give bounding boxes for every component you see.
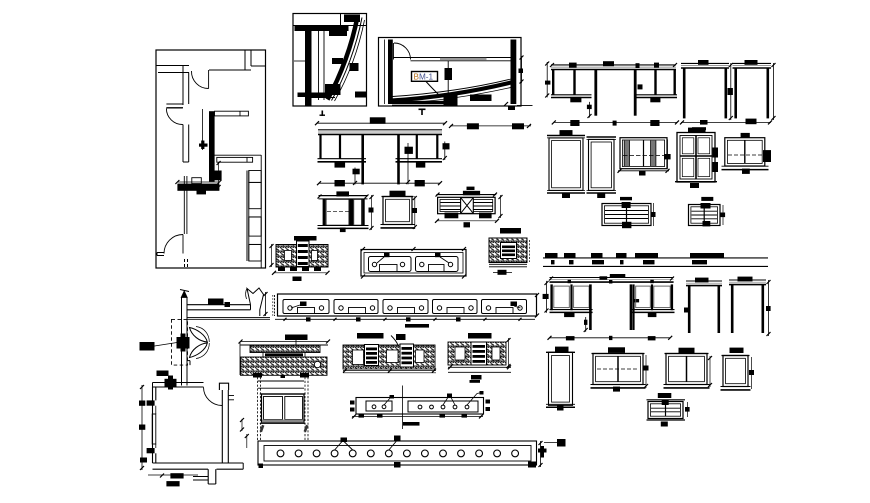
detail C tick label T	[419, 109, 426, 111]
floor plan 2 bottom tee pipe	[207, 469, 209, 484]
hatched unit J bottom dim	[489, 263, 527, 265]
detail C door arc	[394, 43, 411, 60]
hatched unit J side ticks	[529, 240, 531, 262]
floor plan 1 top-right wall notch	[244, 50, 246, 70]
elevation D top rail	[318, 129, 442, 131]
shelf unit G bottom dim	[437, 220, 497, 222]
elevation M open middle post	[630, 284, 633, 330]
hatched counter plan H white cutouts	[285, 251, 292, 261]
frame H3 right dim	[667, 140, 669, 169]
floor plan 1 top-left room wall	[156, 65, 189, 67]
strip Q outer	[356, 398, 484, 415]
floor plan 1 right cabinet column	[246, 171, 248, 262]
window P4 right dim	[751, 357, 753, 389]
strip R top italic labels	[260, 425, 265, 432]
frame E right dim	[371, 195, 373, 230]
shelf unit R5 right dim	[687, 402, 689, 417]
elevation E cabinet B left post	[634, 70, 637, 116]
floor plan 1 door arc left	[166, 109, 182, 125]
table elevation N2	[729, 279, 766, 281]
hatched counter plan H bottom blob	[293, 277, 302, 282]
elevation E cabinet A shelf	[551, 94, 592, 96]
floor plan 2 right wall ticks	[229, 395, 234, 397]
detail C ceiling lines	[393, 57, 516, 59]
sink plan I left basin	[369, 257, 412, 272]
frame H2 tall narrow	[587, 136, 617, 138]
detail C bottom right black bar	[470, 95, 492, 102]
shelf unit G	[463, 191, 480, 196]
floor plan 2 wall stub below door	[188, 360, 191, 362]
detail C right dim line	[521, 56, 523, 83]
detail C BM-1 label box	[412, 72, 438, 82]
section L1 left dim	[239, 342, 241, 375]
hatched unit J body	[489, 238, 527, 263]
detail B curved wall thick	[328, 17, 358, 100]
floor plan 2 room top wall	[153, 382, 204, 384]
svg-text:BM-1: BM-1	[414, 73, 434, 82]
floor plan 2 label 640	[157, 371, 169, 377]
section L3 body	[448, 342, 506, 365]
wall line W upper blobs	[545, 253, 558, 258]
elevation E cabinet B shelf	[635, 94, 677, 96]
window P3 right dim	[709, 356, 711, 387]
floor plan 2 room left wall	[152, 387, 154, 463]
elevation E cabinet A divider	[573, 70, 575, 95]
elevation E bottom dimension line	[554, 121, 677, 123]
floor plan 1 shelf band top	[215, 111, 249, 116]
floor plan 1 wall stub bottom-left	[157, 252, 164, 254]
strip Q centerline	[402, 386, 404, 430]
elevation E left dim	[546, 62, 548, 97]
hatched counter plan H left dim	[271, 244, 273, 267]
elevation D cabinet B right post	[436, 134, 438, 158]
counter strip K right end ticks	[535, 293, 539, 297]
table G bottom blob	[746, 119, 757, 125]
stray dash below D	[467, 187, 475, 190]
table G right dim	[773, 63, 775, 120]
floor plan 2 room right wall	[221, 390, 223, 463]
table elevation N1	[686, 280, 722, 282]
strip R right-bottom blob	[528, 462, 536, 468]
window detail hatch columns	[257, 377, 259, 441]
floor plan 1 cabinet edge line	[183, 176, 185, 234]
floor plan 2 left wall window	[152, 414, 156, 444]
strip R circles	[277, 450, 284, 457]
sink plan I right faucet	[435, 253, 441, 257]
detail C bottom line extension	[517, 105, 533, 107]
section L1 white band with bar	[263, 353, 305, 358]
floor plan 1 corner black block	[211, 171, 222, 181]
counter strip K left hatch end	[274, 295, 276, 316]
detail C right heavy wall	[511, 40, 517, 105]
floor plan 1 left wall lower	[182, 125, 184, 163]
elevation E rail blobs	[569, 63, 577, 68]
section L3 top black bar	[468, 333, 492, 339]
floor plan 1 door arc top	[191, 71, 208, 89]
elevation M bottom dim	[550, 337, 671, 339]
detail B blob right-edge	[355, 92, 367, 98]
table elevation G	[733, 62, 772, 64]
elevation D cabinet A right post	[361, 134, 364, 184]
hatched counter plan H bottom dim	[274, 272, 328, 274]
hatched unit J center box	[501, 243, 517, 259]
elevation E top rail	[551, 64, 676, 66]
floor plan 2 bottom dim	[170, 473, 183, 478]
table F right dim	[730, 63, 732, 120]
section L3 boxes	[455, 347, 465, 360]
elevation D top dimension line	[317, 122, 445, 124]
elevation E cabinet B divider	[654, 70, 656, 95]
table N2 right dim	[768, 280, 770, 336]
elevation M left dim	[546, 281, 548, 313]
floor plan 1 cross symbol	[201, 141, 204, 150]
shelf unit R right dim	[722, 205, 724, 225]
detail B inner vertical lines	[318, 31, 320, 100]
strip Q left box	[366, 401, 392, 411]
section L2 body	[343, 345, 435, 369]
detail C bottom black cluster	[444, 95, 458, 107]
floor plan 2 counter top lines	[188, 304, 251, 306]
detail B vertical black wall	[305, 30, 312, 106]
frame F single-pane	[390, 191, 406, 196]
section L3 bottom dims	[448, 366, 511, 368]
detail C curved floor thick	[393, 83, 512, 101]
counter strip K compartments	[283, 300, 329, 314]
hatched counter plan H center column	[297, 241, 310, 267]
sink plan I right basin	[416, 257, 459, 272]
floor plan 1 left wall stub	[166, 103, 183, 105]
elevation M top rail	[550, 277, 674, 279]
strip R bottom-left black sq	[259, 464, 264, 469]
counter strip K bottom black bar	[405, 324, 429, 328]
table elevation F	[681, 62, 729, 64]
strip R bottom tick	[394, 462, 401, 468]
hatched counter plan H body	[276, 245, 328, 268]
detail B blob mid	[332, 58, 343, 64]
section L3 right dim	[508, 338, 510, 368]
window P2 right dim	[645, 355, 647, 388]
frame H5 window with shelves	[741, 133, 750, 138]
floor plan 1 top wall inner line	[209, 69, 251, 71]
shelf unit R5 bottom blob	[661, 422, 668, 427]
window P3	[679, 348, 695, 353]
detail C center black block	[445, 68, 453, 80]
strip Q bottom black bar	[403, 422, 420, 426]
strip R outer	[258, 441, 537, 465]
floor plan 1 counter black square	[197, 188, 207, 194]
tall frame P1	[555, 347, 569, 352]
shelf unit G bottom blobs	[445, 213, 459, 219]
floor plan 1 threshold dashed lines	[184, 259, 186, 268]
floor plan 2 wall break squiggle	[247, 288, 264, 316]
row1 bottom dim extension	[681, 121, 771, 123]
floor plan 1 shelf band 2	[217, 157, 253, 162]
sink plan I dim ticks	[361, 247, 365, 251]
section L1 upper hatched band	[250, 345, 320, 353]
frame H3 sliding cabinet	[620, 138, 667, 169]
shelf unit R5 top blob	[658, 393, 672, 398]
detail B blob lower cluster	[325, 84, 341, 95]
floor plan 2 left dim line	[141, 385, 143, 470]
elevation M post black tick	[633, 299, 639, 302]
floor plan 2 valve 1	[177, 337, 190, 349]
detail B top black bar	[295, 26, 349, 31]
strip R right dim marks	[540, 441, 542, 467]
elevation D cabinet A divider	[339, 134, 341, 158]
frame H1 tall narrow	[547, 135, 585, 137]
elevation E cabinet B right post	[674, 70, 676, 95]
elevation M cabinet B	[632, 284, 634, 330]
detail B bottom black bar	[298, 93, 332, 98]
floor plan 2 door lens lower	[190, 343, 208, 358]
elevation D dim small left	[354, 168, 356, 185]
elevation M dim mid	[585, 317, 587, 332]
detail B curved wall thin lines	[332, 18, 363, 101]
floor plan 2 lower line	[188, 317, 271, 319]
elevation M cabinet B label blob	[648, 312, 657, 317]
floor plan 2 label 1405	[140, 342, 155, 351]
elevation E dim small	[589, 102, 591, 118]
elevation D cabinet B shelf	[396, 158, 443, 160]
floor plan 2 label 1400	[208, 299, 224, 305]
elevation D cabinet B left post	[397, 134, 400, 184]
elevation D bottom dimension line	[319, 182, 440, 184]
floor plan 2 door arcs thin	[196, 327, 209, 343]
strip Q leaders	[384, 398, 391, 406]
floor plan 2 riser pipe	[181, 298, 183, 386]
hatched unit J bottom blob	[498, 270, 507, 275]
floor plan 2 shaft dashed box	[172, 319, 188, 365]
shelf unit L	[620, 197, 632, 200]
window detail sill gray	[262, 420, 304, 423]
counter strip K bottom dim	[275, 318, 535, 320]
detail C center post line	[447, 61, 449, 95]
detail C hatched band	[440, 58, 487, 61]
detail C lower dimension line	[450, 125, 531, 127]
wall section line W	[543, 257, 768, 259]
detail B tick label 1	[322, 111, 324, 117]
section L1 top dim line	[241, 341, 329, 343]
frame F right dim	[414, 196, 416, 229]
shelf unit R	[701, 197, 713, 201]
elevation M cabinet A	[550, 284, 552, 310]
elevation D cabinet A label blob	[335, 161, 346, 167]
shelf unit G center X box	[461, 198, 474, 214]
section L2 top black bar	[357, 333, 384, 339]
floor plan 1 counter black bar	[177, 184, 219, 191]
elevation D dim right	[444, 142, 446, 161]
strip Q end diamonds	[350, 401, 355, 405]
floor plan 1 center line	[202, 109, 204, 150]
counter strip K faucet right	[511, 302, 518, 307]
section L1 circle in hatch	[314, 361, 320, 367]
window detail frame	[260, 393, 306, 395]
section L2 bottom dim	[343, 370, 436, 372]
frame E left two-pane	[336, 191, 349, 196]
detail C outer box	[379, 38, 522, 107]
table N1 left tick	[684, 308, 689, 313]
detail B mid leader line	[294, 60, 306, 62]
detail C bottom-right diamond	[508, 106, 515, 111]
wall line W lower blobs	[551, 260, 555, 264]
frame E bottom blob	[340, 228, 346, 233]
floor plan 2 door arc	[204, 387, 223, 405]
detail C label leader	[426, 82, 439, 95]
elevation D cabinet A left post	[319, 134, 321, 158]
counter strip K left dim	[265, 292, 267, 316]
hatched counter plan H top bar	[294, 236, 317, 241]
elevation D cabinet B label blob	[416, 161, 425, 167]
counter strip K outer	[278, 294, 537, 316]
window detail top lines	[258, 380, 304, 382]
detail C curved floor thin lines	[393, 79, 512, 97]
section L3 bottom blob	[471, 375, 482, 380]
elevation E post black mark	[638, 84, 643, 89]
elevation M rail blobs	[600, 276, 608, 279]
floor plan 2 door lens upper	[190, 328, 208, 343]
floor plan 1 counter white box	[192, 178, 202, 184]
window P2	[608, 347, 625, 353]
floor plan 1 inner right border line	[260, 155, 262, 268]
elevation D cabinet B divider	[416, 134, 418, 158]
floor plan 2 room bottom wall	[153, 462, 244, 464]
counter strip K faucet left	[300, 302, 307, 307]
floor plan 1 counter dim marks	[177, 181, 219, 183]
floor plan 2 right small dim	[241, 419, 243, 431]
strip Q right box	[408, 401, 478, 412]
shelf unit L right dim	[653, 203, 655, 226]
window P4	[730, 348, 744, 353]
elevation E cabinet A label blob	[570, 97, 581, 102]
section L1 bottom blobs	[253, 373, 262, 378]
section L1 lower hatched block	[241, 357, 328, 375]
sink plan I left faucet	[384, 253, 390, 257]
elevation E cabinet A left post	[552, 70, 554, 95]
detail B top-right sub-rect	[340, 14, 342, 26]
floor plan 2 valve 2	[165, 379, 177, 387]
floor plan 2 vertical dim far	[246, 434, 248, 448]
section L2 leader curve	[391, 336, 398, 346]
floor plan 2 pipe arrow	[181, 291, 187, 298]
section L2 white boxes and slat boxes	[353, 350, 364, 365]
shelf unit R5	[647, 399, 686, 401]
detail B blob mid-right	[350, 63, 359, 71]
floor plan 1 border	[156, 50, 266, 268]
hatched counter plan H bottom blobs	[278, 267, 285, 272]
elevation D cabinet A shelf	[318, 158, 367, 160]
floor plan 1 door arc bottom-left	[164, 235, 183, 254]
elevation D dim mid	[407, 143, 409, 184]
detail C left heavy wall	[388, 40, 393, 105]
table F bottom blob	[700, 120, 708, 125]
floor plan 2 right wall top cap	[219, 383, 228, 390]
detail B blob top-right	[344, 15, 360, 23]
detail B blob upper	[329, 30, 347, 37]
strip R leaders	[335, 442, 342, 451]
elevation E cabinet A right post	[594, 70, 597, 116]
hatched unit J top blob	[500, 228, 521, 234]
strip Q bottom dim	[352, 415, 483, 417]
detail B outer box	[293, 14, 367, 107]
elevation E cabinet B label blob	[650, 97, 660, 102]
blob above Q right	[470, 380, 481, 383]
section L1 top black bar	[285, 335, 308, 341]
frame H4 four-pane window	[688, 128, 706, 133]
sink plan I outer	[361, 250, 466, 277]
shelf unit G right dim	[500, 195, 502, 218]
detail C bottom band	[392, 101, 455, 104]
floor plan 1 thick wall poche	[209, 111, 215, 182]
elevation M cabinet A label blob	[564, 312, 574, 317]
